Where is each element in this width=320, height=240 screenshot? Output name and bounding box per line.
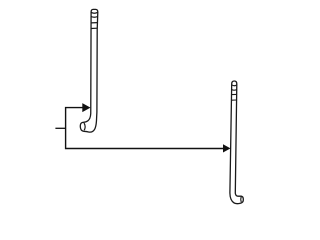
left rod: rib line 4 bbox=[91, 27, 97, 29]
right rod: rib line 4 bbox=[232, 99, 237, 101]
left rod: rib arc 2 bbox=[91, 16, 98, 19]
leader tick (points to label position) bbox=[55, 127, 65, 129]
right rod: outline (L-shaped tube, foot to right) bbox=[230, 81, 243, 204]
right rod: rib arc 1 bbox=[232, 84, 237, 87]
leader bracket: top horizontal + vertical + bottom horizontal bbox=[66, 108, 224, 149]
arrowhead to left rod bbox=[82, 103, 90, 112]
left rod: outline (J-shaped tube, hook to left) bbox=[80, 9, 97, 132]
right rod: rib arc 2 bbox=[232, 89, 237, 92]
right rod: rib line 3 bbox=[232, 93, 237, 95]
left rod: tip end-face arc bbox=[84, 123, 85, 130]
left rod: rib arc 1 bbox=[91, 11, 98, 14]
right rod: tip end-face arc bbox=[240, 197, 243, 202]
left rod: rib line 3 bbox=[91, 22, 98, 24]
arrowhead to right rod bbox=[223, 144, 231, 152]
